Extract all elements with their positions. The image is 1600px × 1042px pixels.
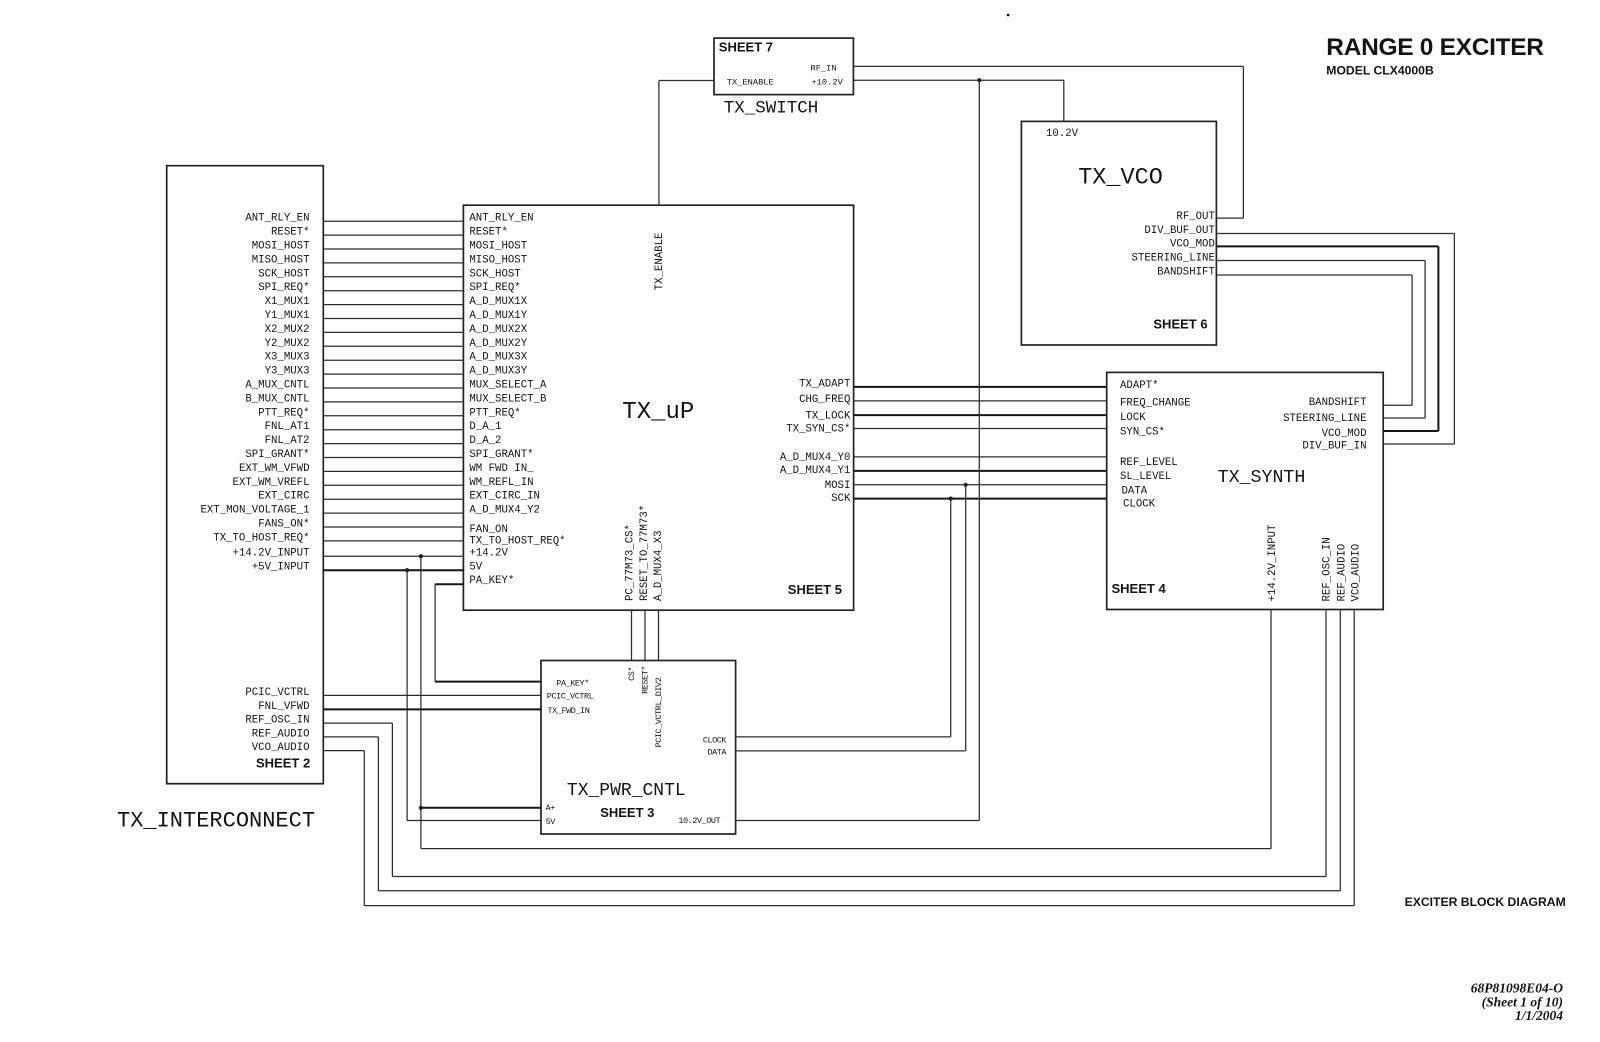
wire X1_MUX1: [323, 304, 463, 306]
svg-text:TX_ENABLE: TX_ENABLE: [727, 77, 774, 87]
svg-text:1/1/2004: 1/1/2004: [1515, 1008, 1563, 1023]
svg-text:SHEET 5: SHEET 5: [788, 582, 842, 597]
wire EXT_WM_VREFL: [323, 484, 463, 486]
svg-text:PCIC_VCTRL_DIV2: PCIC_VCTRL_DIV2: [654, 677, 664, 747]
wire TX_ADAPT/ADAPT*: [854, 386, 1107, 388]
svg-text:ANT_RLY_EN: ANT_RLY_EN: [245, 213, 309, 225]
svg-text:FANS_ON*: FANS_ON*: [258, 519, 309, 531]
svg-text:A_D_MUX4_Y0: A_D_MUX4_Y0: [780, 452, 851, 464]
wire +5V_INPUT: [323, 569, 463, 571]
block TX_SWITCH (SHEET 7): [714, 38, 853, 95]
svg-text:Y2_MUX2: Y2_MUX2: [265, 338, 310, 350]
wire Y2_MUX2: [323, 345, 463, 347]
svg-text:TX_VCO: TX_VCO: [1078, 164, 1163, 191]
svg-text:10.2V: 10.2V: [1046, 128, 1079, 140]
svg-text:D_A_2: D_A_2: [469, 435, 501, 447]
svg-text:CLOCK: CLOCK: [1123, 499, 1156, 511]
svg-text:A_D_MUX1X: A_D_MUX1X: [469, 296, 527, 308]
svg-text:RESET*: RESET*: [469, 227, 507, 239]
wire REF_OSC_IN net (to TX_SYNTH bottom): [323, 610, 1326, 877]
svg-text:ADAPT*: ADAPT*: [1120, 380, 1158, 392]
wire PA_KEY* net (TX_uP PA_KEY* to TX_PWR_CNTL PA_KEY*): [435, 584, 541, 681]
block TX_SYNTH (SHEET 4): [1107, 372, 1384, 609]
svg-text:RF_IN: RF_IN: [811, 63, 837, 73]
wire TX_LOCK/LOCK: [854, 414, 1107, 416]
svg-text:ANT_RLY_EN: ANT_RLY_EN: [469, 213, 533, 225]
svg-text:RF_OUT: RF_OUT: [1176, 211, 1215, 223]
svg-text:BANDSHIFT: BANDSHIFT: [1157, 266, 1215, 278]
svg-text:SCK: SCK: [831, 493, 851, 505]
svg-text:MISO_HOST: MISO_HOST: [469, 254, 527, 266]
svg-text:FNL_AT2: FNL_AT2: [265, 435, 310, 447]
wire RESET_TO_77M73* / RESET*: [644, 610, 646, 660]
wire PTT_REQ*: [323, 415, 463, 417]
wire X2_MUX2: [323, 331, 463, 333]
svg-text:+5V_INPUT: +5V_INPUT: [252, 562, 310, 574]
svg-text:REF_AUDIO: REF_AUDIO: [1337, 544, 1349, 602]
wire CHG_FREQ/FREQ_CHANGE: [854, 400, 1107, 402]
svg-text:SHEET 2: SHEET 2: [256, 756, 310, 771]
svg-text:TX_uP: TX_uP: [622, 399, 694, 426]
svg-text:5V: 5V: [546, 817, 557, 827]
wire A_D_MUX4_Y0/REF_LEVEL: [854, 456, 1107, 458]
svg-text:+10.2V: +10.2V: [812, 77, 844, 87]
wire FNL_AT1: [323, 429, 463, 431]
wire RESET*: [323, 234, 463, 236]
wire Y1_MUX1: [323, 318, 463, 320]
svg-text:X2_MUX2: X2_MUX2: [265, 324, 310, 336]
svg-text:SHEET 6: SHEET 6: [1153, 317, 1207, 332]
svg-text:SCK_HOST: SCK_HOST: [258, 268, 310, 280]
svg-text:SL_LEVEL: SL_LEVEL: [1120, 471, 1171, 483]
wire X3_MUX3: [323, 359, 463, 361]
svg-text:X3_MUX3: X3_MUX3: [265, 352, 310, 364]
svg-text:DATA: DATA: [707, 747, 727, 757]
svg-text:TX_ADAPT: TX_ADAPT: [799, 378, 851, 390]
wire CLOCK net (TX_PWR_CNTL CLOCK up to SCK/CLOCK wire): [736, 497, 953, 737]
svg-text:REF_AUDIO: REF_AUDIO: [252, 728, 310, 740]
svg-text:+14.2V_INPUT: +14.2V_INPUT: [233, 548, 311, 560]
svg-text:SPI_REQ*: SPI_REQ*: [469, 282, 520, 294]
svg-text:WM FWD IN_: WM FWD IN_: [469, 463, 534, 475]
svg-text:VCO_AUDIO: VCO_AUDIO: [252, 742, 310, 754]
svg-text:TX_TO_HOST_REQ*: TX_TO_HOST_REQ*: [213, 532, 309, 544]
wire DIV_BUF_OUT/DIV_BUF_IN (TX_VCO to TX_SYNTH): [1216, 234, 1454, 445]
svg-text:VCO_MOD: VCO_MOD: [1322, 428, 1367, 440]
svg-text:MOSI_HOST: MOSI_HOST: [252, 241, 310, 253]
wire A_D_MUX4_Y1/SL_LEVEL: [854, 470, 1107, 472]
svg-text:EXT_CIRC: EXT_CIRC: [258, 491, 309, 503]
svg-text:X1_MUX1: X1_MUX1: [265, 296, 310, 308]
svg-text:A_D_MUX3Y: A_D_MUX3Y: [469, 366, 527, 378]
svg-text:+14.2V: +14.2V: [469, 548, 508, 560]
svg-text:A+: A+: [546, 803, 556, 813]
svg-text:TX_SYNTH: TX_SYNTH: [1218, 468, 1306, 488]
svg-text:BANDSHIFT: BANDSHIFT: [1309, 397, 1367, 409]
wire BANDSHIFT (TX_VCO to TX_SYNTH): [1216, 275, 1412, 405]
wire FANS_ON*: [323, 526, 463, 528]
svg-text:CHG_FREQ: CHG_FREQ: [799, 394, 850, 406]
svg-text:A_MUX_CNTL: A_MUX_CNTL: [245, 380, 309, 392]
block TX_VCO (SHEET 6): [1021, 121, 1216, 345]
svg-text:Y3_MUX3: Y3_MUX3: [265, 366, 310, 378]
svg-text:CS*: CS*: [627, 667, 637, 681]
wire +5V net (junction dot, drop to TX_PWR_CNTL 5V pin): [405, 568, 541, 820]
block TX_PWR_CNTL (SHEET 3): [541, 661, 736, 835]
svg-text:LOCK: LOCK: [1120, 412, 1146, 424]
wire ANT_RLY_EN: [323, 220, 463, 222]
wire FNL_VFWD / TX_FWD_IN: [323, 708, 541, 710]
wire A_MUX_CNTL: [323, 387, 463, 389]
svg-text:10.2V_OUT: 10.2V_OUT: [678, 816, 720, 826]
svg-text:STEERING_LINE: STEERING_LINE: [1283, 413, 1366, 425]
svg-text:REF_LEVEL: REF_LEVEL: [1120, 457, 1178, 469]
svg-text:FNL_VFWD: FNL_VFWD: [258, 701, 309, 713]
svg-text:MUX_SELECT_B: MUX_SELECT_B: [469, 393, 547, 405]
speck (scan artifact near top center): [1007, 14, 1010, 17]
wire REF_AUDIO net (to TX_SYNTH bottom): [323, 610, 1340, 891]
svg-text:PCIC_VCTRL: PCIC_VCTRL: [245, 687, 309, 699]
wire A_D_MUX4_X3 / PCIC_VCTRL_DIV2: [658, 610, 660, 660]
block TX_INTERCONNECT (SHEET 2): [167, 166, 324, 784]
wire FNL_AT2: [323, 443, 463, 445]
wire STEERING_LINE (TX_VCO to TX_SYNTH): [1216, 261, 1425, 419]
wire MOSI_HOST: [323, 248, 463, 250]
svg-text:EXCITER BLOCK DIAGRAM: EXCITER BLOCK DIAGRAM: [1405, 895, 1566, 909]
wire B_MUX_CNTL: [323, 401, 463, 403]
block TX_uP (SHEET 5): [463, 205, 853, 610]
svg-text:A_D_MUX4_X3: A_D_MUX4_X3: [653, 530, 665, 601]
svg-text:A_D_MUX3X: A_D_MUX3X: [469, 352, 527, 364]
wire EXT_WM_VFWD: [323, 470, 463, 472]
svg-text:RESET_TO_77M73*: RESET_TO_77M73*: [639, 505, 651, 601]
svg-text:FREQ_CHANGE: FREQ_CHANGE: [1120, 398, 1191, 410]
svg-text:TX_INTERCONNECT: TX_INTERCONNECT: [117, 809, 315, 834]
svg-text:SPI_GRANT*: SPI_GRANT*: [469, 449, 533, 461]
svg-text:DIV_BUF_IN: DIV_BUF_IN: [1302, 440, 1366, 452]
wire TX_TO_HOST_REQ*: [323, 540, 463, 542]
svg-text:SHEET 3: SHEET 3: [600, 805, 654, 820]
svg-text:A_D_MUX2X: A_D_MUX2X: [469, 324, 527, 336]
svg-text:REF_OSC_IN: REF_OSC_IN: [1321, 537, 1333, 601]
svg-text:SHEET 4: SHEET 4: [1112, 581, 1167, 596]
svg-text:B_MUX_CNTL: B_MUX_CNTL: [245, 393, 309, 405]
svg-text:A_D_MUX4_Y1: A_D_MUX4_Y1: [780, 465, 851, 477]
svg-text:VCO_MOD: VCO_MOD: [1170, 239, 1215, 251]
wire EXT_MON_VOLTAGE_1: [323, 512, 463, 514]
svg-text:SCK_HOST: SCK_HOST: [469, 268, 521, 280]
svg-text:MISO_HOST: MISO_HOST: [252, 254, 310, 266]
svg-text:PC_77M73_CS*: PC_77M73_CS*: [625, 524, 637, 601]
svg-text:TX_LOCK: TX_LOCK: [805, 411, 850, 423]
svg-text:FAN_ON: FAN_ON: [469, 524, 507, 536]
wire +14.2V_INPUT: [323, 555, 463, 557]
svg-text:PA_KEY*: PA_KEY*: [556, 678, 589, 688]
svg-text:SPI_GRANT*: SPI_GRANT*: [245, 449, 309, 461]
wire SPI_GRANT*: [323, 457, 463, 459]
svg-text:REF_OSC_IN: REF_OSC_IN: [245, 715, 309, 727]
svg-text:DIV_BUF_OUT: DIV_BUF_OUT: [1144, 225, 1215, 237]
svg-text:PA_KEY*: PA_KEY*: [469, 575, 514, 587]
svg-text:TX_ENABLE: TX_ENABLE: [654, 233, 666, 291]
svg-text:SYN_CS*: SYN_CS*: [1120, 427, 1165, 439]
svg-text:PTT_REQ*: PTT_REQ*: [258, 407, 309, 419]
wire SCK/CLOCK: [854, 498, 1107, 500]
wire MISO_HOST: [323, 262, 463, 264]
svg-text:A_D_MUX4_Y2: A_D_MUX4_Y2: [469, 505, 540, 517]
svg-text:MUX_SELECT_A: MUX_SELECT_A: [469, 380, 547, 392]
svg-text:MODEL CLX4000B: MODEL CLX4000B: [1326, 64, 1434, 78]
wire PC_77M73_CS* / CS*: [631, 610, 633, 660]
svg-text:RANGE 0 EXCITER: RANGE 0 EXCITER: [1326, 34, 1544, 61]
svg-text:PCIC_VCTRL: PCIC_VCTRL: [547, 692, 594, 702]
wire RF_IN / RF_OUT (TX_SWITCH to TX_VCO): [853, 66, 1243, 218]
wire TX_SYN_CS*/SYN_CS*: [854, 428, 1107, 430]
svg-text:A_D_MUX2Y: A_D_MUX2Y: [469, 338, 527, 350]
svg-text:TX_PWR_CNTL: TX_PWR_CNTL: [567, 781, 686, 801]
wire +10.2V net (TX_SWITCH to TX_VCO top and down to TX_PWR_CNTL 10.2V_OUT): [736, 78, 1064, 820]
svg-text:D_A_1: D_A_1: [469, 421, 501, 433]
svg-text:RESET*: RESET*: [641, 666, 651, 694]
svg-text:A_D_MUX1Y: A_D_MUX1Y: [469, 310, 527, 322]
svg-text:CLOCK: CLOCK: [703, 735, 728, 745]
wire +14.2V net (junction dots, vertical drop, A+ branch, bottom run to TX_SYNTH +14.2V_INPUT): [419, 554, 1271, 848]
wire DATA net (TX_PWR_CNTL DATA up to MOSI/DATA wire): [736, 483, 968, 751]
wire VCO_MOD (TX_VCO to TX_SYNTH): [1216, 246, 1438, 431]
wire EXT_CIRC: [323, 498, 463, 500]
svg-text:TX_SWITCH: TX_SWITCH: [724, 99, 819, 119]
svg-text:VCO_AUDIO: VCO_AUDIO: [1350, 544, 1362, 602]
svg-text:RESET*: RESET*: [271, 227, 309, 239]
wire VCO_AUDIO net (to TX_SYNTH bottom): [323, 610, 1354, 906]
svg-text:Y1_MUX1: Y1_MUX1: [265, 310, 310, 322]
svg-text:SPI_REQ*: SPI_REQ*: [258, 282, 309, 294]
svg-text:5V: 5V: [469, 562, 482, 574]
svg-text:FNL_AT1: FNL_AT1: [265, 421, 310, 433]
svg-text:EXT_WM_VREFL: EXT_WM_VREFL: [233, 477, 310, 489]
wire PCIC_VCTRL: [323, 694, 541, 696]
svg-text:EXT_MON_VOLTAGE_1: EXT_MON_VOLTAGE_1: [200, 505, 309, 517]
wire TX_ENABLE (TX_SWITCH to TX_uP top): [659, 81, 714, 206]
svg-text:TX_TO_HOST_REQ*: TX_TO_HOST_REQ*: [469, 535, 565, 547]
svg-text:DATA: DATA: [1122, 486, 1148, 498]
wire MOSI/DATA: [854, 484, 1107, 486]
svg-text:SHEET 7: SHEET 7: [719, 40, 773, 55]
wire Y3_MUX3: [323, 373, 463, 375]
svg-text:TX_SYN_CS*: TX_SYN_CS*: [786, 424, 850, 436]
svg-text:WM_REFL_IN: WM_REFL_IN: [469, 477, 533, 489]
svg-text:68P81098E04-O: 68P81098E04-O: [1471, 980, 1563, 995]
svg-text:MOSI_HOST: MOSI_HOST: [469, 241, 527, 253]
svg-text:EXT_CIRC_IN: EXT_CIRC_IN: [469, 491, 540, 503]
svg-text:STEERING_LINE: STEERING_LINE: [1132, 253, 1215, 265]
wire SCK_HOST: [323, 276, 463, 278]
svg-text:TX_FWD_IN: TX_FWD_IN: [548, 706, 590, 716]
svg-text:PTT_REQ*: PTT_REQ*: [469, 407, 520, 419]
wire SPI_REQ*: [323, 290, 463, 292]
svg-text:EXT_WM_VFWD: EXT_WM_VFWD: [239, 463, 310, 475]
svg-text:MOSI: MOSI: [825, 480, 851, 492]
svg-text:+14.2V_INPUT: +14.2V_INPUT: [1267, 524, 1279, 602]
